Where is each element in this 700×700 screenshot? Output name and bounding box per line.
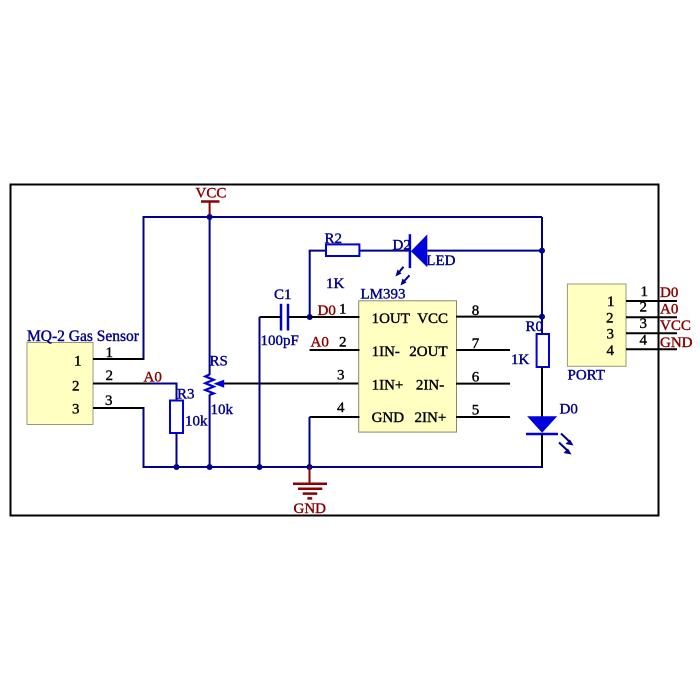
svg-text:3: 3 [640,316,648,332]
wire: C1 left down to ground rail [259,317,261,467]
svg-text:7: 7 [472,336,480,352]
svg-text:VCC: VCC [660,318,691,334]
svg-text:GND: GND [294,501,327,517]
svg-text:2: 2 [72,379,80,395]
PORT pin 3 / net VCC [626,316,691,334]
junction RS/rail [207,464,213,470]
wire: top VCC rail [143,216,543,218]
wire: C1 right to IC pin 1 [288,316,360,318]
PORT pin 2 / net A0 [626,300,678,318]
svg-text:1IN+: 1IN+ [372,377,404,393]
wire: right vertical from VCC rail [541,217,543,317]
capacitor C1 [261,287,299,349]
svg-text:A0: A0 [660,302,678,318]
wire: R2 left vertical to D0 node [309,251,311,317]
svg-text:1: 1 [339,302,347,318]
VCC power symbol [196,186,227,218]
svg-text:2: 2 [606,311,614,327]
svg-text:2: 2 [106,368,114,384]
svg-text:2IN+: 2IN+ [415,410,447,426]
junction VCC rail [207,214,213,220]
resistor R0 [511,319,549,368]
MQ-2 pin 1 [93,345,145,361]
wire: LED D0 to ground rail corner [541,434,543,468]
svg-text:C1: C1 [274,287,292,303]
svg-text:2OUT: 2OUT [409,344,447,360]
LED D2 [393,234,456,285]
border frame [11,185,659,516]
svg-text:A0: A0 [311,335,329,351]
wire: RS wiper to IC pin 3 [224,383,360,385]
wire: R3 to ground rail [176,433,178,467]
MQ-2 sensor box J1 [27,328,140,425]
U1 pin 1 [310,302,360,318]
svg-text:4: 4 [337,400,345,416]
svg-text:3: 3 [105,393,113,409]
connector PORT box [567,284,626,384]
wire: RS vertical from VCC rail [209,217,211,375]
svg-text:3: 3 [337,368,345,384]
svg-text:2: 2 [640,300,648,316]
U1 pin 5 [456,403,510,419]
svg-text:MQ-2 Gas Sensor: MQ-2 Gas Sensor [27,328,140,345]
svg-text:GND: GND [372,410,405,426]
wire: R2 row left [309,250,326,252]
svg-text:GND: GND [660,335,693,351]
svg-text:D2: D2 [393,238,411,254]
svg-text:1OUT: 1OUT [372,311,410,327]
svg-text:5: 5 [472,403,480,419]
ground symbol GND [293,467,327,517]
svg-text:10k: 10k [211,402,234,418]
svg-text:D0: D0 [660,285,678,301]
junction node D0 [307,314,313,320]
junction R3/rail [174,464,180,470]
svg-text:10k: 10k [185,414,208,430]
resistor R3 [170,387,208,434]
svg-text:1K: 1K [326,276,345,292]
U1 pin 6 [456,370,510,386]
svg-text:D0: D0 [560,402,578,418]
svg-text:VCC: VCC [196,186,227,202]
wire: R2 to LED D2 [359,250,410,252]
svg-text:4: 4 [607,343,615,359]
wire: C1 left lead [260,316,282,318]
svg-text:LED: LED [426,253,455,269]
svg-text:R2: R2 [325,231,343,247]
U1 pin 4 [310,400,360,417]
svg-text:2IN-: 2IN- [416,377,444,393]
svg-text:1IN-: 1IN- [372,344,400,360]
resistor R2 [325,231,360,292]
MQ-2 pin 3 [93,393,145,409]
U1 pin 7 [456,336,510,352]
PORT pin 4 / net GND [626,333,693,352]
wire: left vertical pin1 to top rail [143,216,145,359]
svg-text:R3: R3 [177,387,195,403]
svg-text:6: 6 [472,370,480,386]
svg-text:PORT: PORT [568,368,605,384]
svg-text:1: 1 [106,345,114,361]
wire: R0 to LED D0 [541,367,543,417]
svg-text:1K: 1K [511,352,530,368]
op-amp U1 LM393 box [359,301,457,432]
wire: pin4 down to ground rail [309,417,311,467]
wire: bottom ground rail [143,466,543,468]
U1 pin 2 [310,335,360,351]
junction GND node [307,464,313,470]
svg-text:1: 1 [74,354,82,370]
junction pin8 / R0 [539,314,545,320]
MQ-2 pin 2 [93,368,150,384]
svg-text:R0: R0 [526,319,544,335]
svg-text:2: 2 [339,335,347,351]
LED D0 [526,402,578,455]
wire: A0 net to R3 [150,384,178,402]
svg-text:1: 1 [641,284,649,300]
svg-text:100pF: 100pF [261,333,299,349]
PORT pin 1 / net D0 [626,284,678,301]
wire: LED D2 to right vertical [427,250,542,252]
svg-text:A0: A0 [144,370,162,386]
potentiometer RS [205,354,233,419]
svg-text:3: 3 [607,327,615,343]
wire: RS bottom to ground rail [209,395,211,468]
junction C1/rail [257,464,263,470]
svg-text:3: 3 [72,402,80,418]
svg-text:8: 8 [472,303,480,319]
wire: junction to R0 [541,317,543,335]
U1 pin 8 [456,303,542,319]
wire: pin3 down to ground rail [143,408,145,468]
svg-text:1: 1 [607,294,615,310]
svg-text:RS: RS [210,354,228,370]
junction LED row / right vertical [539,248,545,254]
svg-text:4: 4 [640,333,648,349]
svg-text:LM393: LM393 [361,287,406,303]
svg-text:VCC: VCC [417,311,448,327]
